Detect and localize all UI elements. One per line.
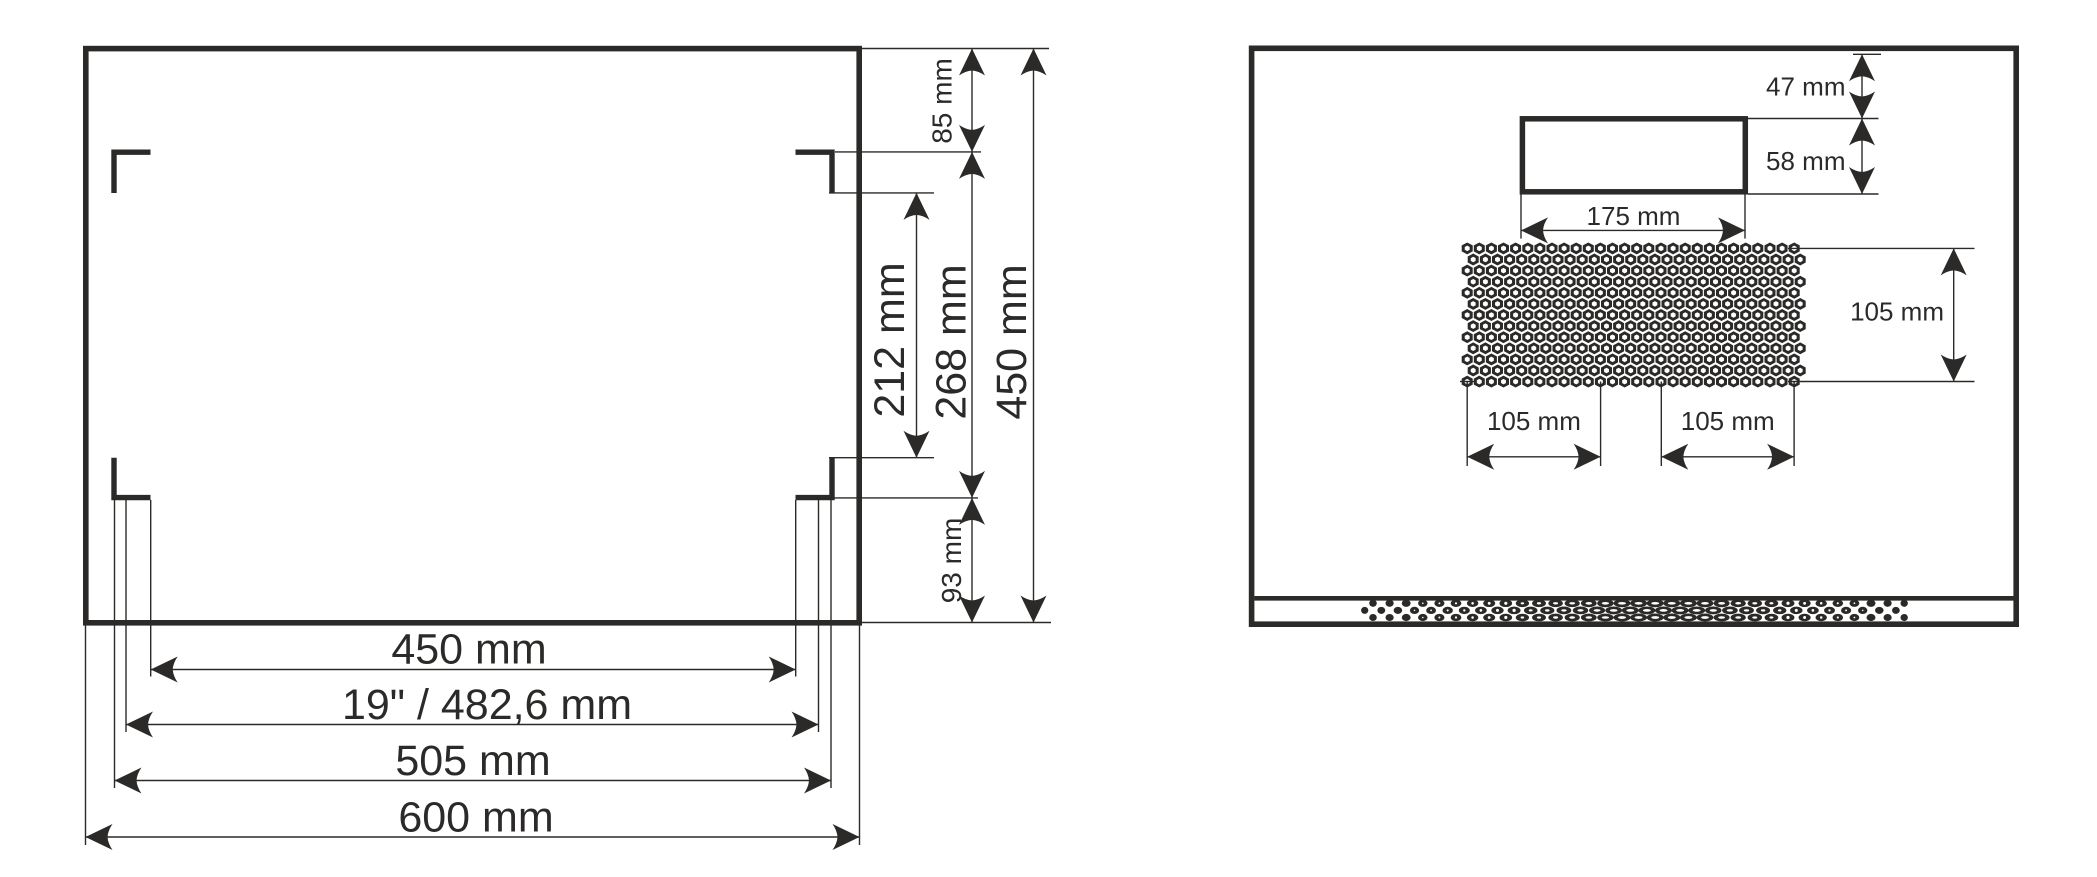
extension line flange top inner end	[829, 192, 934, 194]
mounting flange top-right	[796, 152, 833, 193]
extension line 600 mm right	[859, 626, 861, 846]
label 600 mm	[398, 794, 553, 842]
label 212 mm	[866, 262, 914, 417]
dimension 19in 482.6 mm line	[126, 712, 819, 738]
dimension 58 mm line	[1849, 119, 1875, 195]
dimension 47 mm line	[1849, 54, 1875, 118]
label 175 mm	[1587, 201, 1681, 231]
extension line cutout bottom right	[1748, 193, 1879, 195]
extension line 482.6 mm left	[125, 500, 127, 732]
dimension 85 mm line	[959, 49, 985, 152]
svg-text:58 mm: 58 mm	[1766, 146, 1845, 176]
rear cable cutout	[1522, 119, 1745, 192]
extension line flange bottom	[797, 497, 978, 499]
extension line cutout bottom right corner	[1744, 195, 1746, 239]
label 93 mm	[936, 518, 967, 604]
svg-text:105 mm: 105 mm	[1681, 406, 1775, 436]
dimension 450 mm vertical line	[1021, 49, 1047, 623]
svg-text:268 mm: 268 mm	[928, 264, 976, 419]
dimension 212 mm line	[904, 193, 930, 458]
tick below top edge	[1853, 53, 1881, 55]
dimension 175 mm line	[1521, 217, 1745, 243]
label 85 mm	[927, 58, 958, 144]
extension line flange bottom inner end	[829, 457, 934, 459]
svg-text:600 mm: 600 mm	[398, 794, 553, 842]
svg-text:105 mm: 105 mm	[1487, 406, 1581, 436]
svg-text:505 mm: 505 mm	[395, 737, 550, 785]
extension line 482.6 mm right	[818, 500, 820, 732]
label 19in 482.6 mm	[342, 681, 632, 729]
svg-text:105 mm: 105 mm	[1850, 297, 1944, 327]
svg-text:450 mm: 450 mm	[391, 626, 546, 674]
dimension 93 mm line	[959, 498, 985, 623]
extension line top edge	[862, 48, 1049, 50]
extension line mesh bottom right	[1788, 381, 1975, 383]
extension line 450 mm left	[150, 500, 152, 677]
svg-text:85 mm: 85 mm	[927, 58, 958, 144]
label 450 mm vertical	[988, 264, 1036, 419]
label 105 mm bottom-left	[1487, 406, 1581, 436]
extension line cutout bottom left corner	[1520, 195, 1522, 239]
mounting flange bottom-right	[796, 458, 833, 498]
svg-text:47 mm: 47 mm	[1766, 72, 1845, 102]
honeycomb vent mesh	[1462, 242, 1806, 387]
label 268 mm	[928, 264, 976, 419]
label 105 mm bottom-right	[1681, 406, 1775, 436]
label 450 mm bottom	[391, 626, 546, 674]
extension line 450 mm right	[795, 500, 797, 677]
rear vent strip divider line	[1254, 596, 2013, 601]
extension line 505 mm left	[114, 500, 116, 788]
dimension 600 mm line	[86, 824, 860, 850]
label 505 mm	[395, 737, 550, 785]
extension line 505 mm right	[830, 500, 832, 788]
mounting flange top-left	[114, 152, 151, 193]
dimension 450 mm bottom line	[151, 657, 796, 683]
label 105 mm right	[1850, 297, 1944, 327]
extension line cutout top right	[1748, 118, 1879, 120]
cabinet rear panel outline	[1252, 48, 2017, 624]
vent strip perforation	[1361, 599, 1908, 621]
extension line mesh top right	[1788, 247, 1975, 249]
extension line mesh col 0	[1466, 382, 1468, 467]
extension line mesh col 16	[1660, 382, 1662, 467]
dimension 105 mm right line	[1941, 248, 1967, 381]
mesh corner tick bottom-left	[1460, 381, 1474, 383]
extension line mesh col 27	[1793, 382, 1795, 467]
mounting flange bottom-left	[114, 458, 151, 498]
dimension 105 mm bottom-right line	[1661, 444, 1794, 470]
extension line mesh col 11	[1600, 382, 1602, 467]
label 58 mm	[1766, 146, 1845, 176]
cabinet front panel outline	[86, 49, 859, 623]
extension line 600 mm left	[85, 626, 87, 846]
dimension 505 mm line	[115, 768, 832, 794]
svg-text:450 mm: 450 mm	[988, 264, 1036, 419]
svg-text:93 mm: 93 mm	[936, 518, 967, 604]
extension line flange top	[835, 151, 981, 153]
extension line bottom edge	[862, 622, 1051, 624]
dimension 268 mm line	[959, 152, 985, 498]
dimension 105 mm bottom-left line	[1467, 444, 1600, 470]
svg-text:212 mm: 212 mm	[866, 262, 914, 417]
label 47 mm	[1766, 72, 1845, 102]
svg-text:19" / 482,6 mm: 19" / 482,6 mm	[342, 681, 632, 729]
svg-text:175 mm: 175 mm	[1587, 201, 1681, 231]
